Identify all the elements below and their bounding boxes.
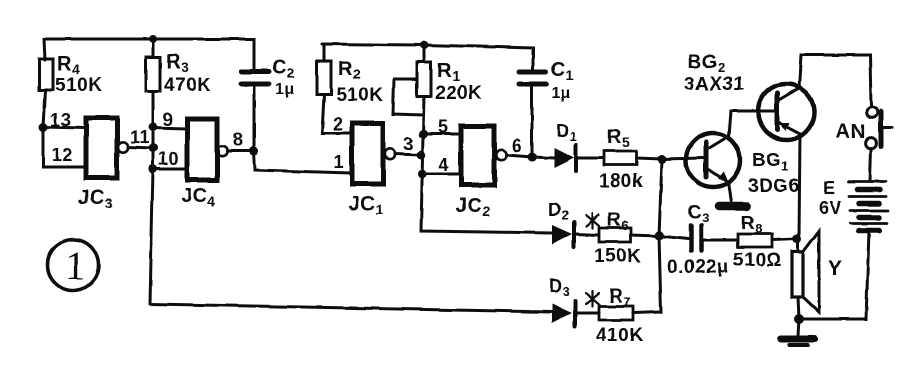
node speaker bottom junction (794, 314, 804, 324)
svg-text:8: 8 (233, 130, 244, 150)
svg-text:470K: 470K (164, 75, 211, 96)
wire top-left rail (44, 39, 254, 70)
wire pin 10 (153, 149, 186, 169)
svg-text:3AX31: 3AX31 (684, 74, 745, 95)
svg-text:Y: Y (828, 257, 843, 280)
capacitor C2 (241, 57, 295, 151)
svg-text:E: E (823, 178, 836, 198)
resistor R8 (733, 213, 797, 271)
svg-text:1μ: 1μ (551, 85, 571, 102)
capacitor C3 (659, 202, 738, 278)
svg-text:1: 1 (334, 152, 345, 172)
wire bottom long run (150, 304, 552, 312)
node R1 top (420, 41, 428, 49)
wire BG1 emitter down (728, 183, 731, 202)
wire left vertical bus (152, 127, 155, 169)
transistor BG2 (684, 52, 814, 140)
svg-text:10: 10 (158, 149, 179, 169)
wire top-middle rail (322, 44, 533, 71)
node pin4 junction (418, 170, 427, 179)
svg-text:6: 6 (512, 136, 523, 156)
wire middle vertical bus (421, 134, 552, 233)
svg-text:510Ω: 510Ω (733, 250, 782, 271)
node R6 junction (655, 232, 664, 241)
node R5 out junction (658, 155, 667, 164)
wire AN to battery (870, 148, 871, 181)
wire output 6 (506, 136, 532, 157)
svg-text:150K: 150K (594, 246, 641, 267)
wire BG1 collector up (729, 111, 774, 136)
wire BG2 emitter down (799, 134, 800, 239)
svg-text:6V: 6V (819, 198, 842, 218)
diode D1 (532, 121, 604, 171)
battery E (819, 178, 888, 231)
speaker Y (792, 231, 843, 319)
wire output 3 (395, 134, 421, 155)
wire output 11 (128, 127, 153, 148)
svg-text:1μ: 1μ (275, 81, 295, 98)
inverter JC1 (349, 123, 395, 217)
ground speaker (781, 319, 815, 345)
wire pin 9 (153, 110, 186, 130)
svg-text:0.022μ: 0.022μ (667, 257, 729, 278)
svg-text:13: 13 (50, 110, 71, 130)
wire BG2 collector up (799, 55, 871, 106)
wire pin 4 (422, 155, 460, 175)
node out3 junction (417, 151, 426, 160)
wire right vertical bus (659, 159, 662, 236)
diode D3 (549, 276, 599, 326)
svg-text:180k: 180k (599, 171, 643, 192)
node pin5 junction (419, 130, 428, 139)
inverter JC4 (181, 119, 227, 209)
svg-text:220K: 220K (435, 83, 482, 104)
svg-text:410K: 410K (596, 325, 643, 346)
wire to JC1 pin1 (254, 151, 351, 173)
svg-text:2: 2 (333, 114, 344, 134)
svg-text:5: 5 (438, 117, 449, 137)
ground BG1 emitter (719, 202, 747, 211)
wire to BG1 base (662, 158, 703, 159)
node pin8 junction (250, 147, 259, 156)
resistor R3 (146, 39, 211, 127)
resistor R1 (393, 45, 482, 134)
svg-text:11: 11 (130, 127, 150, 147)
wire vertical to R7 (659, 236, 661, 312)
wire pin 13 (43, 110, 84, 130)
node out11 junction (149, 144, 158, 153)
diode D2 (548, 200, 599, 247)
capacitor C1 (519, 59, 574, 157)
svg-text:3DG6: 3DG6 (748, 176, 800, 197)
inverter JC2 (456, 126, 506, 219)
node pin9 junction (149, 123, 158, 132)
figure number 1 (48, 240, 99, 291)
svg-text:9: 9 (163, 110, 174, 130)
wire output 8 (227, 130, 254, 151)
wire pin 5 (423, 117, 460, 137)
node pin6 junction (528, 153, 537, 162)
star mark R6 (586, 213, 599, 228)
wire pin 12 (43, 127, 84, 167)
node pin10 junction (149, 165, 158, 174)
svg-text:12: 12 (52, 145, 73, 165)
wire battery to speaker bottom (799, 231, 869, 319)
svg-text:4: 4 (439, 155, 450, 175)
star mark R7 (586, 291, 599, 306)
svg-text:510K: 510K (336, 85, 383, 106)
resistor R2 (317, 44, 383, 134)
svg-text:510K: 510K (55, 75, 102, 96)
resistor R5 (599, 126, 662, 192)
node R8 out junction (793, 235, 802, 244)
wire left long vertical (150, 169, 153, 304)
resistor R4 (39, 53, 102, 127)
svg-text:3: 3 (403, 134, 414, 154)
resistor R7 (596, 286, 661, 346)
node pin13 junction (39, 123, 48, 132)
svg-text:AN: AN (836, 121, 866, 143)
switch AN (836, 107, 892, 149)
inverter JC3 (78, 118, 128, 211)
svg-text:1: 1 (65, 243, 86, 288)
transistor BG1 (686, 133, 800, 197)
node R3 top (149, 35, 157, 43)
resistor R6 (594, 210, 659, 267)
